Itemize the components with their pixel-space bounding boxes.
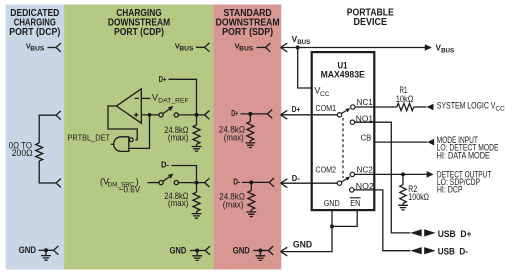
DCP column background bbox=[6, 5, 64, 270]
svg-text:DAT_REF: DAT_REF bbox=[158, 98, 189, 105]
wire GND (CDP) bbox=[190, 250, 205, 252]
arrow open VBUS bbox=[281, 43, 288, 52]
svg-text:CC: CC bbox=[495, 106, 505, 113]
junction plus input node bbox=[148, 113, 152, 117]
double arrow USB D+ bbox=[410, 229, 422, 236]
minus input mark bbox=[135, 97, 139, 99]
junction VBUS/VCC bbox=[296, 46, 300, 50]
svg-text:BUS: BUS bbox=[441, 47, 455, 54]
switch lever with arrow (CDP D+) bbox=[163, 109, 169, 113]
switch contact circle 2 (CDP D+) bbox=[174, 113, 178, 117]
connector GND (DCP) bbox=[54, 246, 59, 255]
svg-text:BUS: BUS bbox=[297, 39, 311, 46]
svg-text:BUS: BUS bbox=[30, 47, 44, 53]
wire NC2 to detect output bbox=[355, 173, 427, 175]
svg-text:(max): (max) bbox=[223, 200, 244, 210]
ground symbol (CDP GND) bbox=[192, 251, 202, 261]
wire VBUS (CDP) bbox=[196, 46, 205, 48]
wire D+ stub (DCP) bbox=[39, 115, 56, 143]
svg-text:D-: D- bbox=[233, 177, 240, 187]
connector GND (CDP) bbox=[205, 246, 210, 255]
svg-text:D-: D- bbox=[292, 173, 300, 183]
junction GND/EN bbox=[330, 224, 334, 228]
switch lever with arrow (CDP D-) bbox=[163, 177, 169, 181]
junction GND (SDP) bbox=[258, 249, 262, 253]
wire plus input to switch bbox=[141, 114, 159, 116]
switch pivot COM1 bbox=[337, 113, 341, 117]
connector D- (CDP) bbox=[205, 178, 210, 187]
wire GND (DCP) bbox=[39, 249, 54, 251]
switch lever SW2 bbox=[341, 179, 346, 182]
svg-text:(max): (max) bbox=[168, 133, 189, 143]
SDP column background bbox=[213, 5, 281, 270]
connector D+ (SDP) bbox=[267, 110, 272, 119]
header CDP bbox=[108, 8, 170, 38]
svg-text:200Ω: 200Ω bbox=[12, 148, 33, 158]
svg-text:SYSTEM LOGIC V: SYSTEM LOGIC V bbox=[437, 101, 496, 112]
svg-text:CC: CC bbox=[320, 91, 330, 98]
resistor 24.8k (CDP D-) bbox=[193, 192, 200, 211]
wire D+ (CDP) bbox=[169, 79, 197, 113]
svg-text:10kΩ: 10kΩ bbox=[396, 94, 414, 104]
connector D- (SDP) bbox=[269, 178, 274, 187]
switch contact circle 1 (CDP D-) bbox=[159, 181, 163, 185]
switch contact NO1 bbox=[350, 120, 354, 124]
svg-text:PORT (DCP): PORT (DCP) bbox=[9, 27, 60, 38]
gate inverter bubble bbox=[130, 138, 134, 142]
svg-text:EN: EN bbox=[350, 198, 360, 208]
double arrow USB D- bbox=[410, 247, 422, 254]
arrow open D- bbox=[281, 179, 288, 188]
wire GND pin down bbox=[281, 210, 332, 252]
junction GND (DCP) bbox=[44, 248, 48, 252]
wire VBUS main bbox=[281, 47, 426, 49]
svg-text:D+: D+ bbox=[231, 108, 238, 118]
connector VBUS (CDP) bbox=[205, 43, 210, 52]
wire PRTBL_DET to gate bbox=[111, 143, 114, 145]
svg-text:USB D-: USB D- bbox=[438, 246, 468, 256]
ground symbol (R2) bbox=[398, 203, 408, 210]
svg-text:GND: GND bbox=[324, 198, 340, 208]
EN overline bbox=[350, 197, 361, 199]
resistor 0-200ohm (DCP) bbox=[36, 143, 43, 161]
switch pivot COM2 bbox=[337, 181, 341, 185]
wire VDAT_REF to minus input bbox=[141, 97, 150, 99]
wire comparator output bbox=[108, 106, 137, 140]
wire D- (CDP) bbox=[172, 166, 197, 181]
svg-text:CB: CB bbox=[361, 133, 372, 143]
header DCP bbox=[9, 8, 60, 38]
wire R2 node down bbox=[402, 174, 404, 184]
svg-text:COM1: COM1 bbox=[315, 103, 336, 113]
wire GND (SDP) bbox=[253, 250, 268, 252]
arrow open GND bbox=[281, 247, 288, 256]
junction R2 node bbox=[401, 172, 405, 176]
svg-text:USB D+: USB D+ bbox=[438, 229, 472, 239]
wire D- (SDP) bbox=[242, 181, 269, 183]
switch lever SW1 bbox=[341, 111, 346, 114]
resistor 24.8k (SDP D-) bbox=[248, 191, 255, 210]
wire D+ to resistor (SDP) bbox=[249, 114, 251, 122]
junction D- (SDP) bbox=[249, 180, 253, 184]
svg-text:−0.6V: −0.6V bbox=[119, 185, 141, 195]
wire EN pin down bbox=[332, 210, 357, 226]
wire junction to connector (CDP D-) bbox=[197, 182, 205, 184]
svg-text:(max): (max) bbox=[224, 133, 244, 143]
wire gate lower input from plus node bbox=[129, 115, 150, 148]
wire D- rail to resistor bbox=[196, 183, 198, 193]
connector VBUS (SDP) bbox=[266, 43, 271, 52]
connector D+ (DCP) bbox=[56, 111, 61, 120]
svg-text:BUS: BUS bbox=[239, 47, 253, 53]
svg-text:NC1: NC1 bbox=[357, 97, 374, 107]
wire VBUS (DCP) bbox=[48, 47, 57, 49]
resistor R2 100k bbox=[400, 185, 406, 204]
junction D- rail (CDP) bbox=[195, 181, 199, 185]
switch contact circle 1 (CDP D+) bbox=[159, 113, 163, 117]
dashed gang link bbox=[342, 118, 344, 178]
ground symbol (CDP D-) bbox=[192, 211, 202, 218]
ground symbol (SDP D-) bbox=[246, 210, 256, 217]
junction GND (CDP) bbox=[195, 249, 199, 253]
wire NO1 to USB D+ bbox=[355, 122, 411, 233]
wire D- stub (DCP) bbox=[39, 161, 56, 183]
chip U1 MAX4983E box bbox=[312, 52, 375, 210]
svg-text:D+: D+ bbox=[292, 104, 301, 114]
svg-text:PRTBL_DET: PRTBL_DET bbox=[68, 132, 111, 142]
ground symbol (SDP GND) bbox=[256, 251, 266, 261]
wire D+ (SDP) bbox=[241, 113, 268, 115]
switch contact NC1 bbox=[351, 105, 355, 109]
wire junction to connector (CDP D+) bbox=[197, 114, 205, 116]
svg-text:100kΩ: 100kΩ bbox=[408, 192, 429, 202]
junction D+ (SDP) bbox=[248, 112, 252, 116]
connector GND (SDP) bbox=[268, 246, 273, 255]
wire NO2 to USB D- bbox=[354, 190, 410, 251]
plus input mark bbox=[134, 113, 139, 117]
header SDP bbox=[216, 8, 280, 38]
arrowhead VBUS right bbox=[425, 44, 432, 51]
svg-text:BUS: BUS bbox=[179, 46, 193, 52]
svg-text:PORT (SDP): PORT (SDP) bbox=[222, 27, 273, 38]
arrowhead DETECT OUTPUT bbox=[427, 171, 434, 178]
svg-text:D-: D- bbox=[161, 160, 169, 170]
wire VBUS (SDP) bbox=[257, 46, 266, 48]
svg-text:HI: DCP: HI: DCP bbox=[437, 185, 463, 196]
svg-text:GND: GND bbox=[170, 245, 187, 255]
switch contact NC2 bbox=[350, 172, 354, 176]
ground symbol (CDP D+) bbox=[192, 144, 202, 151]
NAND gate (CDP) bbox=[114, 137, 129, 152]
switch contact NO2 bbox=[350, 188, 354, 192]
arrow open D+ bbox=[281, 110, 288, 119]
wire D- to resistor (SDP) bbox=[250, 182, 252, 190]
svg-text:NC2: NC2 bbox=[357, 165, 374, 175]
wire NC1 to R1 bbox=[355, 106, 397, 108]
svg-text:GND: GND bbox=[233, 245, 250, 255]
svg-text:COM2: COM2 bbox=[315, 165, 336, 175]
ground symbol (DCP) bbox=[41, 250, 51, 260]
arrowhead SYSTEM LOGIC bbox=[427, 104, 434, 111]
wire switch to D- rail bbox=[178, 182, 196, 184]
wire VDM_SRC to switch bbox=[148, 182, 160, 184]
resistor 24.8k (SDP D+) bbox=[247, 122, 254, 141]
wire VCC branch bbox=[298, 48, 312, 89]
header PORTABLE DEVICE bbox=[347, 8, 394, 28]
CDP column background bbox=[64, 5, 213, 270]
svg-text:(max): (max) bbox=[168, 198, 189, 208]
resistor 24.8k (CDP D+) bbox=[193, 125, 200, 144]
ground symbol (SDP D+) bbox=[245, 141, 255, 148]
svg-text:MAX4983E: MAX4983E bbox=[321, 69, 365, 80]
connector D- (DCP) bbox=[56, 179, 61, 188]
connector D+ (CDP) bbox=[205, 111, 210, 120]
wire D+ to COM1 bbox=[281, 114, 338, 116]
arrowhead MODE INPUT bbox=[427, 139, 434, 146]
svg-text:D+: D+ bbox=[159, 74, 167, 84]
svg-text:DEVICE: DEVICE bbox=[354, 17, 388, 28]
op-amp comparator (CDP) bbox=[116, 89, 141, 123]
wire D- to COM2 bbox=[281, 182, 338, 184]
svg-text:PORT (CDP): PORT (CDP) bbox=[114, 27, 164, 38]
svg-text:GND: GND bbox=[19, 245, 37, 255]
wire D+ rail to resistor bbox=[196, 115, 198, 125]
junction D+ rail (CDP) bbox=[195, 113, 199, 117]
wire R1 to arrow bbox=[414, 106, 427, 108]
wire switch to D+ rail bbox=[178, 114, 196, 116]
svg-text:GND: GND bbox=[293, 239, 313, 249]
wire CB to arrow bbox=[374, 141, 427, 143]
resistor R1 10k bbox=[397, 103, 414, 110]
svg-text:HI: DATA MODE: HI: DATA MODE bbox=[437, 150, 490, 161]
connector VBUS (DCP) bbox=[56, 43, 61, 52]
switch contact circle 2 (CDP D-) bbox=[174, 181, 178, 185]
